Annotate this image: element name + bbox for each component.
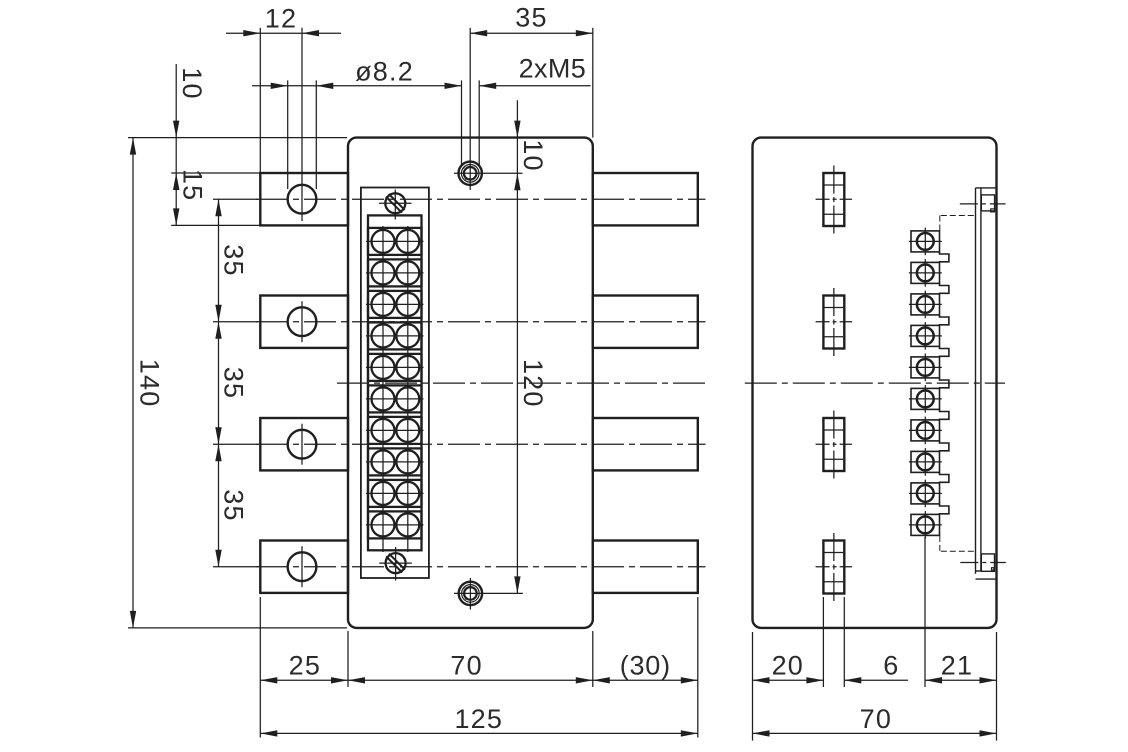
svg-text:35: 35	[218, 367, 248, 399]
dimension 12 line	[226, 32, 341, 34]
strip screw top centerline	[960, 203, 1006, 205]
svg-text:125: 125	[454, 704, 503, 734]
left view bottom extension lines	[259, 597, 261, 738]
terminal step 4 side view	[940, 346, 949, 357]
right terminal lug 2	[593, 296, 698, 348]
core slot 4 centerlines	[833, 533, 835, 601]
terminal screw 8 side view	[911, 451, 940, 472]
dimension 140 extension lines	[128, 137, 347, 139]
dimension 12 extension lines	[259, 28, 261, 173]
svg-text:10: 10	[177, 67, 207, 99]
dimension 35 chain line	[218, 199, 220, 567]
terminal strip outer housing	[361, 188, 429, 579]
svg-text:70: 70	[860, 704, 892, 734]
left mounting tab 3	[260, 418, 348, 470]
M5 top hole crosshair	[454, 172, 523, 174]
terminal screw 5 side view	[911, 357, 940, 378]
svg-text:25: 25	[289, 650, 321, 680]
dimension 2xM5 line	[479, 85, 590, 87]
dimension 20 6 21 line	[753, 679, 824, 681]
terminal step 9 side view	[940, 504, 949, 515]
right view bottom extension lines	[752, 632, 754, 741]
svg-text:120: 120	[518, 359, 548, 408]
terminal cell row 6	[368, 385, 422, 412]
dimension 2xM5 extension lines	[461, 80, 463, 165]
svg-text:12: 12	[265, 4, 297, 34]
dimension o8.2 line	[252, 85, 462, 87]
hole o8.2 tab 3	[288, 430, 317, 459]
svg-text:20: 20	[772, 650, 804, 680]
terminal step 3 side view	[940, 315, 949, 326]
right view body outline	[753, 138, 997, 628]
terminal screw 3 side view	[911, 294, 940, 315]
core slot 3 right view	[823, 418, 844, 471]
terminal step 2 side view	[940, 283, 949, 294]
terminal cell row 5	[368, 354, 422, 381]
terminal cell row 9	[368, 480, 422, 507]
core slot 2 centerlines	[833, 288, 835, 356]
dimension 35 top extension lines	[469, 28, 471, 146]
dimension 35 top line	[470, 32, 593, 34]
right terminal lug 1	[593, 173, 698, 225]
terminal cell row 1	[368, 228, 422, 255]
terminal step 6 side view	[940, 409, 949, 420]
M5 mounting hole top	[459, 162, 482, 185]
right terminal lug 3	[593, 418, 698, 470]
dimension 125 line	[260, 732, 698, 734]
terminal block inner body	[368, 215, 422, 550]
core slot 4 right view	[823, 541, 844, 594]
hole o8.2 tab 4	[288, 552, 317, 581]
svg-text:140: 140	[135, 359, 165, 408]
centerline tab row 2 left view	[256, 321, 706, 323]
strip screw bottom side view	[981, 554, 994, 571]
svg-text:(30): (30)	[620, 650, 671, 680]
right terminal lug 4	[593, 541, 698, 593]
strip screw top side view	[981, 195, 994, 211]
left view body outline	[348, 138, 593, 628]
svg-text:35: 35	[218, 244, 248, 276]
svg-text:21: 21	[941, 650, 973, 680]
strip fixing screw top	[385, 193, 405, 213]
terminal cell row 8	[368, 448, 422, 475]
svg-text:10: 10	[518, 139, 548, 171]
svg-text:6: 6	[883, 650, 899, 680]
centerline tab row 1 left view	[256, 198, 706, 200]
terminal screw 6 side view	[911, 388, 940, 409]
svg-text:15: 15	[178, 169, 208, 201]
M5 bottom hole crosshair	[454, 592, 523, 594]
core slot 3 centerlines	[833, 411, 835, 479]
terminal cell row 2	[368, 259, 422, 286]
dimension 25 70 30 line	[260, 679, 698, 681]
hidden edge strip bottom right view	[941, 550, 976, 552]
centerline horizontal mid axis right view	[745, 382, 1005, 384]
terminal screw 1 side view	[911, 231, 940, 252]
svg-text:ø8.2: ø8.2	[355, 57, 414, 87]
strip screw bottom centerline	[960, 562, 1006, 564]
terminal step 8 side view	[940, 472, 949, 483]
core slot 1 right view	[823, 173, 844, 226]
terminal screw 2 side view	[911, 262, 940, 283]
dimension 10 and 120 right line	[516, 100, 518, 593]
dimension 10 left line	[175, 64, 177, 225]
left mounting tab 2	[260, 296, 348, 348]
hole o8.2 tab 1	[288, 185, 317, 214]
terminal column centerlines	[382, 226, 384, 552]
svg-text:35: 35	[218, 489, 248, 521]
centerline horizontal mid axis left view	[337, 382, 706, 384]
centerline tab row 3 left view	[256, 443, 706, 445]
dimension 15 arrows	[173, 208, 179, 225]
dimension 35 chain extension lines	[213, 198, 258, 200]
terminal cell row 4	[368, 322, 422, 349]
hole o8.2 tab 2	[288, 307, 317, 336]
terminal step 1 side view	[940, 252, 949, 263]
terminal step 5 side view	[940, 378, 949, 389]
M5 mounting hole bottom	[459, 582, 482, 605]
strip fixing screw bottom	[386, 553, 406, 573]
left mounting tab 1	[260, 173, 348, 225]
hidden edge strip top right view	[941, 215, 976, 217]
svg-text:2xM5: 2xM5	[519, 54, 587, 84]
core slot 2 right view	[823, 296, 844, 349]
dimension 15 extension lines	[171, 172, 260, 174]
terminal step 7 side view	[940, 441, 949, 452]
centerline tab row 4 left view	[256, 566, 706, 568]
terminal strip side plate	[975, 188, 977, 574]
dimension 70 right line	[753, 732, 997, 734]
terminal screw 9 side view	[911, 483, 940, 504]
terminal cell row 7	[368, 417, 422, 444]
left mounting tab 4	[260, 541, 348, 593]
terminal cell row 10	[368, 511, 422, 538]
terminal screw 10 side view	[911, 514, 940, 535]
terminal screw 4 side view	[911, 325, 940, 346]
core slot 1 centerlines	[833, 166, 835, 234]
terminal cell row 3	[368, 291, 422, 318]
svg-text:35: 35	[515, 3, 547, 33]
terminal screw 7 side view	[911, 420, 940, 441]
dimension o8.2 extension lines	[287, 80, 289, 189]
dimension 140 line	[132, 138, 134, 628]
svg-text:70: 70	[450, 650, 482, 680]
